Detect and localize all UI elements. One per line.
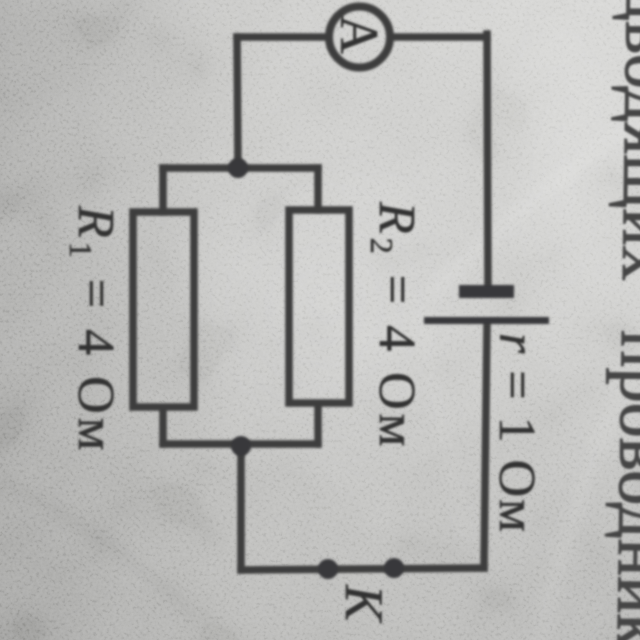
svg-text:r = 1 Ом: r = 1 Ом xyxy=(488,333,545,534)
wire stub bottom of R2 xyxy=(314,406,322,444)
wire stub bottom of R1 xyxy=(159,410,167,444)
wire bottom horizontal xyxy=(241,568,484,570)
battery negative plate (short thick) xyxy=(459,285,514,298)
battery positive plate (long thin) xyxy=(424,317,549,324)
svg-text:подводящих: подводящих xyxy=(607,0,640,282)
node junction bottom xyxy=(231,436,251,456)
wire top-right horizontal xyxy=(393,33,487,41)
wire left vertical bottom to junction xyxy=(237,446,245,570)
wire vertical from top junction to top-left corner xyxy=(237,37,238,168)
wire stub top of R1 xyxy=(159,168,167,212)
wire top bus of parallel section xyxy=(163,164,318,172)
wire bottom bus of parallel section xyxy=(163,440,318,448)
switch K terminal left xyxy=(318,559,338,579)
node junction top xyxy=(228,158,248,178)
svg-text:проводник: проводник xyxy=(602,330,640,640)
wire top-left horizontal xyxy=(237,33,326,41)
resistor R1 body xyxy=(133,212,194,407)
svg-text:К: К xyxy=(334,584,394,624)
wire right vertical to battery xyxy=(487,34,488,291)
svg-text:А: А xyxy=(329,15,389,54)
wire stub top of R2 xyxy=(314,168,322,210)
switch K terminal right xyxy=(384,558,404,578)
wire battery to bottom-right corner xyxy=(484,324,487,568)
ammeter A1 circle xyxy=(329,7,390,68)
resistor R2 body xyxy=(289,210,349,403)
